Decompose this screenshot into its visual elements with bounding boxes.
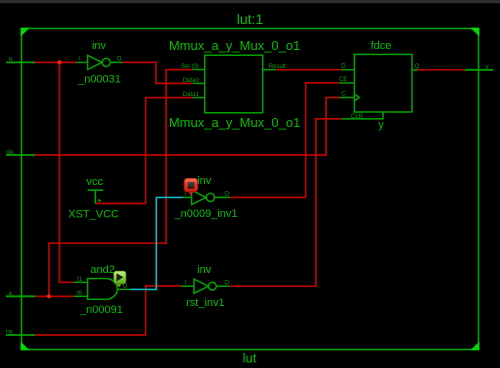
play badge (114, 271, 126, 287)
svg-text:and2: and2 (90, 264, 114, 276)
corner marker bottom-right (471, 342, 480, 351)
corner marker top-right (471, 28, 480, 37)
wire clk net to C (35, 98, 339, 156)
port b stub (6, 61, 35, 63)
svg-text:y: y (378, 119, 384, 131)
wire Result to D (276, 69, 341, 71)
svg-text:O: O (123, 284, 128, 290)
wire a net (35, 70, 193, 297)
window top bar (0, 0, 500, 3)
svg-text:fdce: fdce (371, 40, 392, 52)
inverter _n0009_inv1 (183, 190, 230, 204)
inverter U_n00031 (76, 55, 122, 69)
corner marker top-left (21, 28, 30, 37)
svg-text:inv: inv (197, 175, 212, 187)
svg-text:_n00091: _n00091 (79, 304, 123, 316)
svg-text:C: C (341, 92, 346, 98)
svg-text:_n0009_inv1: _n0009_inv1 (173, 208, 237, 220)
svg-text:XST_VCC: XST_VCC (68, 209, 119, 221)
svg-text:D: D (341, 64, 346, 70)
node b junction (57, 60, 61, 64)
svg-text:Mmux_a_y_Mux_0_o1: Mmux_a_y_Mux_0_o1 (169, 115, 301, 130)
svg-text:I0: I0 (77, 291, 83, 297)
wire and2 out cyan net (130, 197, 183, 289)
svg-text:vcc: vcc (87, 176, 104, 188)
svg-text:inv: inv (92, 40, 107, 52)
svg-text:CLR: CLR (351, 114, 364, 120)
wire rst net to rst_inv1 (35, 286, 181, 335)
node a junction (47, 294, 51, 298)
corner marker bottom-left (21, 342, 30, 351)
svg-text:O: O (224, 192, 229, 198)
inverter rst_inv1 (181, 279, 229, 293)
svg-text:Q: Q (415, 64, 420, 70)
pin label P (98, 199, 101, 202)
svg-text:Data1: Data1 (183, 92, 200, 98)
port a stub (6, 295, 35, 297)
port clk stub (6, 154, 35, 156)
breakpoint badge (184, 178, 197, 195)
and2 gate _n00091 (74, 279, 130, 300)
wire _n0009_inv1 out to CE (230, 83, 339, 197)
svg-text:O: O (224, 281, 229, 287)
svg-text:lut: lut (243, 351, 257, 366)
svg-text:Sel (0): Sel (0) (181, 64, 199, 70)
svg-text:Data0: Data0 (183, 78, 200, 84)
power XST_VCC (88, 190, 104, 203)
mux Mmux_a_y_Mux_0_o1 (193, 55, 276, 113)
svg-text:_n00031: _n00031 (77, 74, 121, 86)
svg-text:lut:1: lut:1 (237, 11, 264, 27)
flip-flop fdce (339, 54, 417, 119)
svg-text:I1: I1 (77, 277, 83, 283)
svg-text:rst_inv1: rst_inv1 (186, 297, 225, 309)
svg-text:Mmux_a_y_Mux_0_o1: Mmux_a_y_Mux_0_o1 (169, 38, 301, 53)
port y stub (465, 69, 493, 71)
wire vcc to Data1 (96, 98, 193, 204)
wire rst_inv1 out to CLR (229, 119, 341, 286)
wire _n00031 out to Data0 (122, 62, 192, 83)
port rst stub (6, 334, 35, 336)
wire b net (35, 62, 76, 282)
svg-text:Result: Result (269, 64, 286, 70)
instance border lut (22, 29, 479, 350)
svg-text:inv: inv (197, 264, 212, 276)
wire Q to y (417, 69, 465, 71)
svg-text:CE: CE (339, 77, 347, 83)
svg-text:O: O (117, 56, 122, 62)
